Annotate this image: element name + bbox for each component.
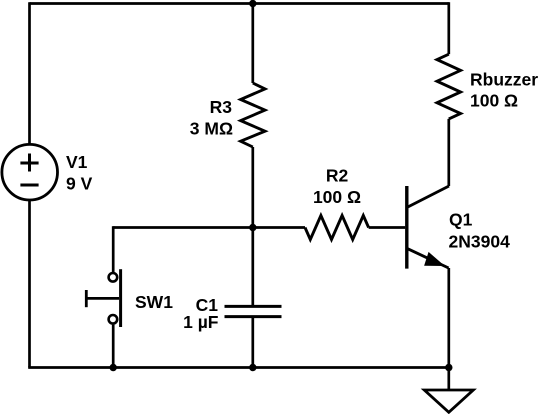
svg-text:100 Ω: 100 Ω <box>313 187 361 207</box>
wire left rail upper <box>28 2 31 145</box>
svg-text:100 Ω: 100 Ω <box>470 91 518 111</box>
svg-text:R2: R2 <box>326 166 349 186</box>
wire emitter <box>447 268 450 368</box>
svg-text:V1: V1 <box>66 152 88 172</box>
svg-text:Q1: Q1 <box>449 210 473 230</box>
svg-text:3 MΩ: 3 MΩ <box>190 119 233 139</box>
transistor Q1 <box>407 186 449 269</box>
wire middle branch mid <box>251 147 254 228</box>
node ground junction <box>445 364 452 371</box>
node top junction <box>249 0 256 7</box>
wire base to transistor <box>369 226 406 229</box>
ground <box>424 390 473 412</box>
svg-text:1 µF: 1 µF <box>183 312 219 332</box>
node capacitor-bottom junction <box>249 364 256 371</box>
wire left rail lower <box>28 200 31 368</box>
switch SW1 <box>86 226 120 367</box>
voltage source V1 <box>2 144 58 200</box>
wire top rail <box>30 2 449 5</box>
wire right rail upper <box>447 2 450 54</box>
svg-text:9 V: 9 V <box>66 173 93 193</box>
svg-text:Rbuzzer: Rbuzzer <box>470 70 538 90</box>
wire capacitor bottom lead <box>251 317 254 368</box>
wire middle branch upper <box>251 4 254 84</box>
resistor R2 <box>305 216 369 240</box>
resistor Rbuzzer <box>437 54 461 119</box>
wire base rail <box>113 226 305 229</box>
svg-text:SW1: SW1 <box>135 292 173 312</box>
svg-text:2N3904: 2N3904 <box>449 232 511 252</box>
node switch-bottom junction <box>110 364 117 371</box>
wire capacitor top lead <box>251 228 254 307</box>
capacitor C1 <box>225 306 282 316</box>
node base junction <box>249 224 256 231</box>
svg-text:R3: R3 <box>210 97 233 117</box>
resistor R3 <box>241 83 265 147</box>
wire collector <box>447 119 450 186</box>
wire ground lead <box>447 368 450 391</box>
wire bottom rail <box>28 366 449 369</box>
